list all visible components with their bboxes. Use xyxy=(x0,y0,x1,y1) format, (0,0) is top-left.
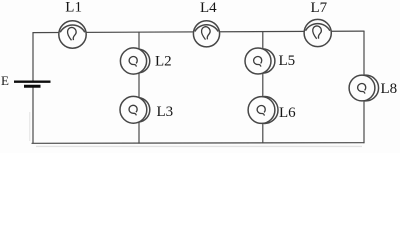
svg-text:L6: L6 xyxy=(279,105,296,121)
svg-text:L8: L8 xyxy=(381,81,398,97)
svg-text:L4: L4 xyxy=(200,0,217,16)
svg-text:L3: L3 xyxy=(157,104,174,120)
svg-text:L5: L5 xyxy=(279,53,296,69)
svg-text:L1: L1 xyxy=(65,0,82,16)
svg-text:L2: L2 xyxy=(155,54,172,70)
svg-text:L7: L7 xyxy=(311,0,328,16)
svg-text:E: E xyxy=(1,73,9,88)
